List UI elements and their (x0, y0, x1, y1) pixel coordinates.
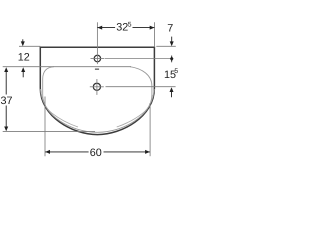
overflow slot dash (95, 69, 99, 70)
tap hole circle (94, 55, 100, 61)
svg-text:7: 7 (167, 23, 173, 35)
dimension 37: lower line and down arrow (5, 106, 7, 127)
drain axis reference line to right (106, 86, 176, 88)
dimension 32.5: extension line at right edge (153, 22, 155, 47)
dimension 37: bottom reference line (3, 131, 95, 133)
drain hole circle (93, 83, 100, 90)
deck front edge crossing curve left (40, 89, 78, 127)
dimension 37: up arrow at top (4, 67, 8, 72)
inner bowl back line merged with left reference line y=66.7 (3, 66, 131, 68)
dimension 60: right extension line (149, 103, 151, 156)
dimension 32.5: extension line at tap axis (96, 22, 98, 53)
dimension 60: left arrow (45, 150, 50, 154)
svg-text:37: 37 (1, 95, 13, 107)
inner rim of bowl (43, 67, 152, 133)
dimension 7: down arrow (171, 37, 173, 42)
dimension 60: left extension line (44, 97, 46, 157)
dimension 7: reference line at deck top level, right side (156, 45, 176, 47)
dimension 60: right arrow (145, 150, 150, 154)
dimension 60: dimension line (45, 151, 88, 153)
svg-text:60: 60 (90, 147, 102, 159)
washbasin outer outline (deck top edge, sides and front curve) (40, 47, 154, 134)
tap hole crosshair (91, 58, 105, 60)
svg-text:32: 32 (116, 22, 128, 34)
dimension 32.5: left arrow (97, 26, 102, 30)
drain crosshair (90, 86, 104, 88)
dimension 12: down arrow above top line (22, 39, 24, 42)
shared terminator diamond (171, 56, 173, 63)
dimension 32.5: right arrow (150, 26, 155, 30)
svg-text:5: 5 (174, 68, 178, 75)
dimension 15.5: up arrow (170, 87, 174, 92)
svg-text:5: 5 (128, 22, 132, 29)
dimension 12: up arrow below bottom line (21, 67, 25, 72)
deck front edge crossing curve right (117, 89, 155, 127)
dimension 12: reference line at deck top level, left side (19, 45, 40, 47)
tap axis reference line to right (105, 58, 171, 60)
svg-text:12: 12 (18, 52, 30, 64)
dimension 32.5: dimension line (97, 27, 115, 29)
